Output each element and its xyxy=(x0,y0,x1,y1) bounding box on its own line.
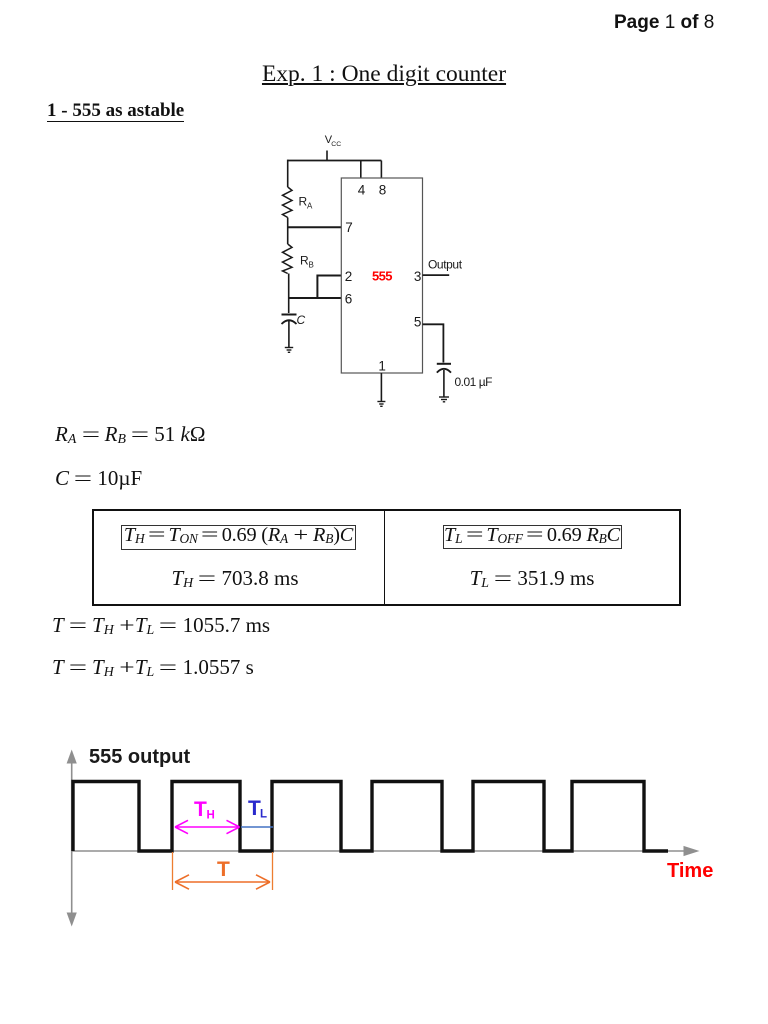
header page number xyxy=(614,12,714,34)
formula table xyxy=(92,509,681,606)
ground (below C) xyxy=(285,348,293,353)
pin 1 wire xyxy=(380,373,382,401)
equation T ms xyxy=(52,613,270,638)
TH formula box xyxy=(121,525,356,550)
svg-text:2: 2 xyxy=(345,269,353,284)
wire RB to C xyxy=(288,274,290,314)
svg-text:7: 7 xyxy=(345,220,353,235)
svg-text:1: 1 xyxy=(378,358,386,373)
pin 7 wire xyxy=(288,226,342,228)
svg-text:5: 5 xyxy=(414,314,422,329)
equation T s xyxy=(52,655,254,680)
waveform plot xyxy=(40,728,740,940)
Vcc label xyxy=(325,134,341,148)
pin 2 wire xyxy=(317,275,341,277)
RA label xyxy=(299,195,314,211)
svg-text:C: C xyxy=(297,313,306,327)
capacitor C2 0.01uF xyxy=(437,364,451,373)
svg-text:B: B xyxy=(309,261,314,270)
svg-text:8: 8 xyxy=(379,183,387,198)
T dropline right xyxy=(272,852,274,890)
pin 3 output wire xyxy=(423,274,450,276)
IC U1 555 body xyxy=(341,178,422,373)
ground (pin 1) xyxy=(377,402,385,407)
svg-text:Time: Time xyxy=(667,860,713,882)
section heading xyxy=(47,100,184,122)
left rail wire to RA xyxy=(287,160,289,187)
equation RA = RB xyxy=(55,422,205,447)
pin number labels xyxy=(345,183,422,374)
svg-text:T: T xyxy=(217,858,230,881)
T arrow xyxy=(175,875,270,889)
x axis xyxy=(72,846,700,856)
svg-text:CC: CC xyxy=(331,141,341,148)
pin 4 stub wire xyxy=(360,161,362,179)
svg-text:6: 6 xyxy=(345,291,353,306)
wire C2 to ground xyxy=(443,370,445,397)
svg-text:555 output: 555 output xyxy=(89,746,190,768)
resistor RA xyxy=(283,187,293,218)
pin2-pin6 link wire xyxy=(316,275,318,299)
svg-text:555: 555 xyxy=(372,269,392,284)
T dropline left xyxy=(172,852,174,890)
pin 5 wire xyxy=(423,324,444,362)
pin 6 wire xyxy=(289,297,342,299)
svg-text:0.01 µF: 0.01 µF xyxy=(455,375,493,389)
pin 8 stub wire xyxy=(380,161,382,179)
svg-text:H: H xyxy=(207,810,215,822)
circuit schematic xyxy=(255,128,500,413)
equation C = 10uF xyxy=(55,466,142,491)
RB label xyxy=(300,254,314,270)
wire RA to RB xyxy=(287,218,289,245)
TH label xyxy=(194,798,215,822)
Vcc stub wire xyxy=(326,151,328,161)
resistor RB xyxy=(283,244,293,274)
TH value xyxy=(94,566,376,591)
title xyxy=(0,61,768,88)
svg-text:4: 4 xyxy=(358,183,366,198)
TL line xyxy=(241,826,273,828)
ground (below C2) xyxy=(439,397,449,402)
svg-text:Output: Output xyxy=(428,258,463,272)
svg-text:L: L xyxy=(260,809,267,821)
svg-text:A: A xyxy=(307,202,313,211)
svg-text:T: T xyxy=(194,798,207,821)
capacitor C xyxy=(282,315,297,325)
TH arrow xyxy=(175,820,240,833)
y axis xyxy=(67,750,77,927)
TL label xyxy=(248,797,267,821)
square wave xyxy=(73,782,668,852)
top rail wire xyxy=(288,160,382,162)
wire C to ground xyxy=(288,321,290,347)
svg-text:3: 3 xyxy=(414,269,422,284)
TL value xyxy=(385,566,679,591)
TL formula box xyxy=(443,525,622,549)
